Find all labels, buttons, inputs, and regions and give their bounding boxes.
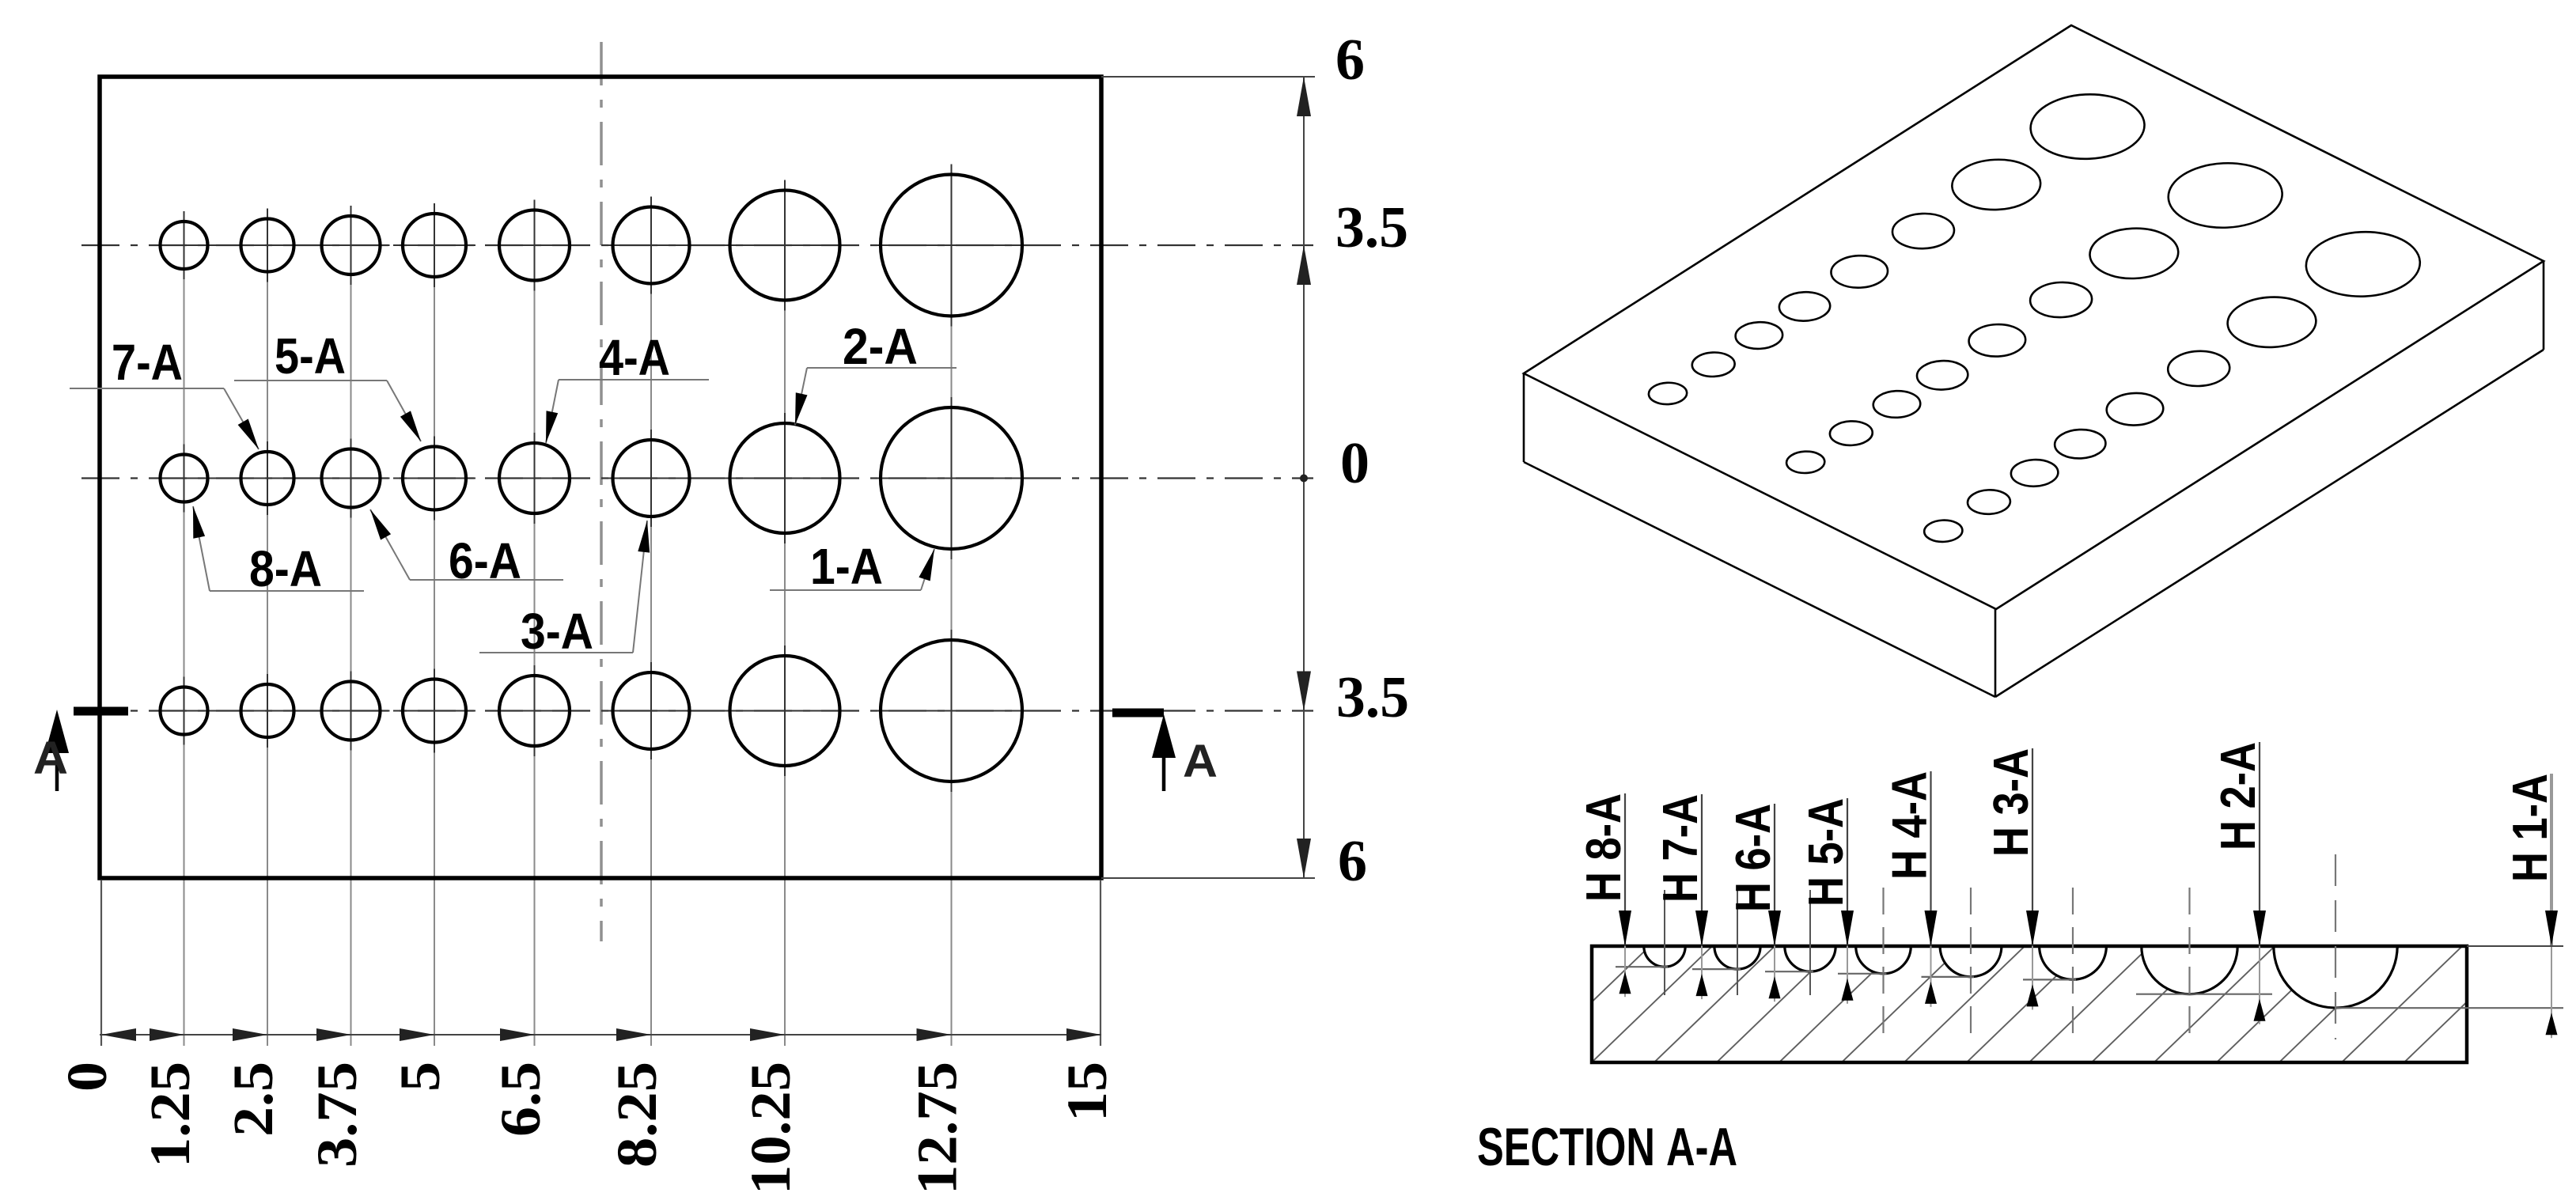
svg-text:1-A: 1-A <box>810 538 883 595</box>
svg-text:SECTION A-A: SECTION A-A <box>1477 1117 1737 1177</box>
svg-text:H 1-A: H 1-A <box>2503 774 2558 882</box>
svg-text:H 8-A: H 8-A <box>1577 793 1631 902</box>
svg-text:10.25: 10.25 <box>739 1062 802 1195</box>
svg-text:5: 5 <box>388 1062 452 1092</box>
svg-text:3.5: 3.5 <box>1335 195 1408 260</box>
svg-text:A: A <box>33 733 68 784</box>
svg-text:0: 0 <box>55 1062 119 1092</box>
svg-text:8-A: 8-A <box>249 540 322 597</box>
svg-text:3.5: 3.5 <box>1336 665 1409 730</box>
svg-text:15: 15 <box>1055 1062 1119 1122</box>
svg-text:2.5: 2.5 <box>222 1062 285 1137</box>
svg-text:6: 6 <box>1335 28 1365 93</box>
svg-text:6-A: 6-A <box>449 532 521 589</box>
svg-text:1.25: 1.25 <box>138 1062 202 1168</box>
svg-text:H 5-A: H 5-A <box>1799 798 1854 907</box>
svg-text:H 7-A: H 7-A <box>1654 794 1708 903</box>
svg-text:8.25: 8.25 <box>605 1062 669 1168</box>
svg-text:H 3-A: H 3-A <box>1984 748 2039 857</box>
svg-text:6: 6 <box>1338 829 1367 894</box>
svg-text:0: 0 <box>1340 431 1369 496</box>
svg-text:3.75: 3.75 <box>305 1062 369 1168</box>
svg-text:6.5: 6.5 <box>489 1062 552 1137</box>
svg-text:H 6-A: H 6-A <box>1726 804 1781 912</box>
svg-text:4-A: 4-A <box>599 329 670 386</box>
svg-text:H 2-A: H 2-A <box>2211 742 2266 850</box>
svg-text:12.75: 12.75 <box>906 1062 969 1195</box>
svg-text:A: A <box>1183 736 1218 787</box>
svg-text:H 4-A: H 4-A <box>1883 771 1938 880</box>
svg-text:3-A: 3-A <box>521 603 593 660</box>
svg-text:2-A: 2-A <box>843 318 918 375</box>
svg-text:7-A: 7-A <box>112 334 183 391</box>
svg-text:5-A: 5-A <box>275 328 346 384</box>
